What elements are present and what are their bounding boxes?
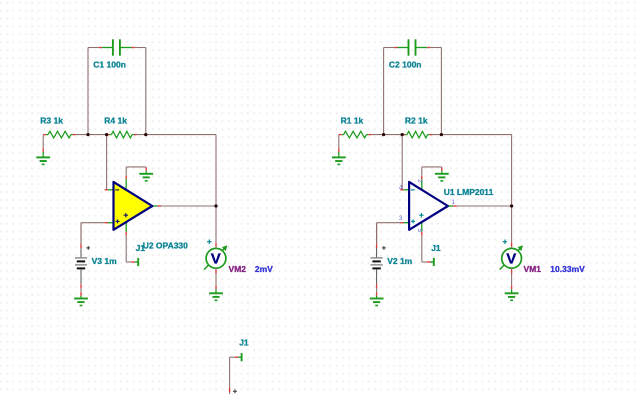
resistor R4 bbox=[107, 131, 137, 138]
label J1 (right) bbox=[431, 243, 441, 253]
op-amp U2 bbox=[105, 176, 162, 236]
svg-text:4: 4 bbox=[399, 184, 403, 191]
wire cap-loop left vertical (right) bbox=[383, 48, 385, 135]
reading 2mV bbox=[255, 264, 273, 274]
svg-text:J1: J1 bbox=[136, 243, 146, 253]
label VM1 bbox=[524, 264, 542, 274]
node output junction (left) bbox=[214, 204, 217, 207]
label R4 1k bbox=[104, 116, 127, 126]
capacitor C2 bbox=[384, 39, 442, 55]
wire output (left) bbox=[161, 205, 216, 207]
resistor R1 bbox=[339, 131, 372, 138]
jumper J1 (bottom) bbox=[230, 353, 242, 361]
voltmeter VM1 bbox=[500, 240, 523, 270]
label V2 1m bbox=[387, 256, 412, 266]
svg-text:C1 100n: C1 100n bbox=[93, 60, 126, 70]
wire output (right) bbox=[457, 205, 512, 207]
label U1 LMP2011 bbox=[444, 187, 494, 197]
wire voltmeter to ground (right) bbox=[511, 268, 513, 285]
wire op-amp V+ to ground (left) bbox=[126, 167, 146, 176]
reading 10.33mV bbox=[550, 264, 585, 274]
svg-text:V3 1m: V3 1m bbox=[92, 256, 117, 266]
ground at op-amp top (left) bbox=[139, 167, 153, 181]
svg-text:VM2: VM2 bbox=[229, 264, 247, 274]
ground at op-amp top (right) bbox=[435, 167, 449, 181]
label R2 1k bbox=[405, 116, 428, 126]
svg-text:VM1: VM1 bbox=[524, 264, 542, 274]
label U2 OPA330 bbox=[143, 240, 188, 250]
wire node row right a bbox=[371, 134, 402, 136]
svg-text:R4 1k: R4 1k bbox=[104, 116, 127, 126]
wire noninverting input (right) bbox=[377, 223, 401, 245]
wire output to voltmeter (left) bbox=[215, 206, 217, 249]
svg-text:R2 1k: R2 1k bbox=[405, 116, 428, 126]
wire bottom jumper vertical bbox=[229, 357, 231, 394]
wire feedback column (left) bbox=[215, 135, 217, 206]
wire op-amp V+ to ground (right) bbox=[422, 167, 442, 176]
node junction left 3 bbox=[144, 133, 147, 136]
wire node row left b bbox=[137, 134, 216, 136]
svg-text:J1: J1 bbox=[239, 337, 249, 347]
capacitor C1 bbox=[88, 39, 146, 55]
svg-text:U2 OPA330: U2 OPA330 bbox=[143, 240, 188, 250]
wire op-amp V- to jumper (right) bbox=[421, 235, 423, 262]
label J1 (left) bbox=[136, 243, 146, 253]
node bottom plus mark bbox=[233, 389, 237, 393]
svg-text:U1 LMP2011: U1 LMP2011 bbox=[444, 187, 494, 197]
ground at V2 bbox=[370, 292, 384, 305]
ground at R1 bbox=[332, 135, 346, 165]
node junction right 3 bbox=[440, 133, 443, 136]
ground at VM1 bbox=[505, 286, 519, 301]
wire cap-loop left vertical (left) bbox=[87, 48, 89, 135]
label R3 1k bbox=[40, 116, 63, 126]
ground at V3 bbox=[74, 292, 88, 305]
svg-text:2mV: 2mV bbox=[255, 264, 273, 274]
node output junction (right) bbox=[510, 204, 513, 207]
wire cap-loop right vertical (right) bbox=[440, 48, 442, 135]
voltage source V2 bbox=[371, 223, 386, 293]
svg-text:5: 5 bbox=[416, 229, 423, 233]
svg-text:3: 3 bbox=[399, 215, 403, 222]
svg-text:1: 1 bbox=[451, 199, 455, 206]
op-amp U1 bbox=[399, 176, 457, 236]
wire cap-loop right vertical (left) bbox=[145, 48, 147, 135]
wire inverting input drop (left) bbox=[105, 135, 107, 190]
wire feedback column (right) bbox=[511, 135, 513, 206]
label VM2 bbox=[229, 264, 247, 274]
node junction left 1 bbox=[86, 133, 89, 136]
wire voltmeter to ground (left) bbox=[215, 268, 217, 285]
svg-text:V: V bbox=[211, 251, 221, 268]
svg-text:2: 2 bbox=[416, 179, 423, 183]
svg-text:R3 1k: R3 1k bbox=[40, 116, 63, 126]
svg-text:C2 100n: C2 100n bbox=[389, 60, 422, 70]
node junction left 2 bbox=[105, 133, 108, 136]
wire node row right b bbox=[432, 134, 511, 136]
wire node row left a bbox=[76, 134, 107, 136]
label C2 100n bbox=[389, 60, 422, 70]
wire op-amp V- to jumper (left) bbox=[125, 235, 127, 262]
node junction right 1 bbox=[382, 133, 385, 136]
wire output to voltmeter (right) bbox=[511, 206, 513, 249]
svg-text:V: V bbox=[506, 251, 516, 268]
label J1 (bottom) bbox=[239, 337, 249, 347]
ground at VM2 bbox=[209, 286, 223, 301]
jumper J1 (right) bbox=[422, 258, 434, 266]
label R1 1k bbox=[341, 116, 364, 126]
node junction right 2 bbox=[401, 133, 404, 136]
svg-text:10.33mV: 10.33mV bbox=[550, 264, 585, 274]
ground at R3 bbox=[36, 135, 50, 165]
voltmeter VM2 bbox=[204, 240, 227, 270]
wire inverting input drop (right) bbox=[401, 135, 403, 190]
label V3 1m bbox=[92, 256, 117, 266]
svg-text:R1 1k: R1 1k bbox=[341, 116, 364, 126]
wire noninverting input (left) bbox=[81, 223, 105, 245]
voltage source V3 bbox=[75, 223, 90, 293]
resistor R2 bbox=[402, 131, 432, 138]
resistor R3 bbox=[43, 131, 75, 138]
jumper J1 (left) bbox=[126, 258, 138, 266]
label C1 100n bbox=[93, 60, 126, 70]
svg-text:V2 1m: V2 1m bbox=[387, 256, 412, 266]
svg-text:J1: J1 bbox=[431, 243, 441, 253]
